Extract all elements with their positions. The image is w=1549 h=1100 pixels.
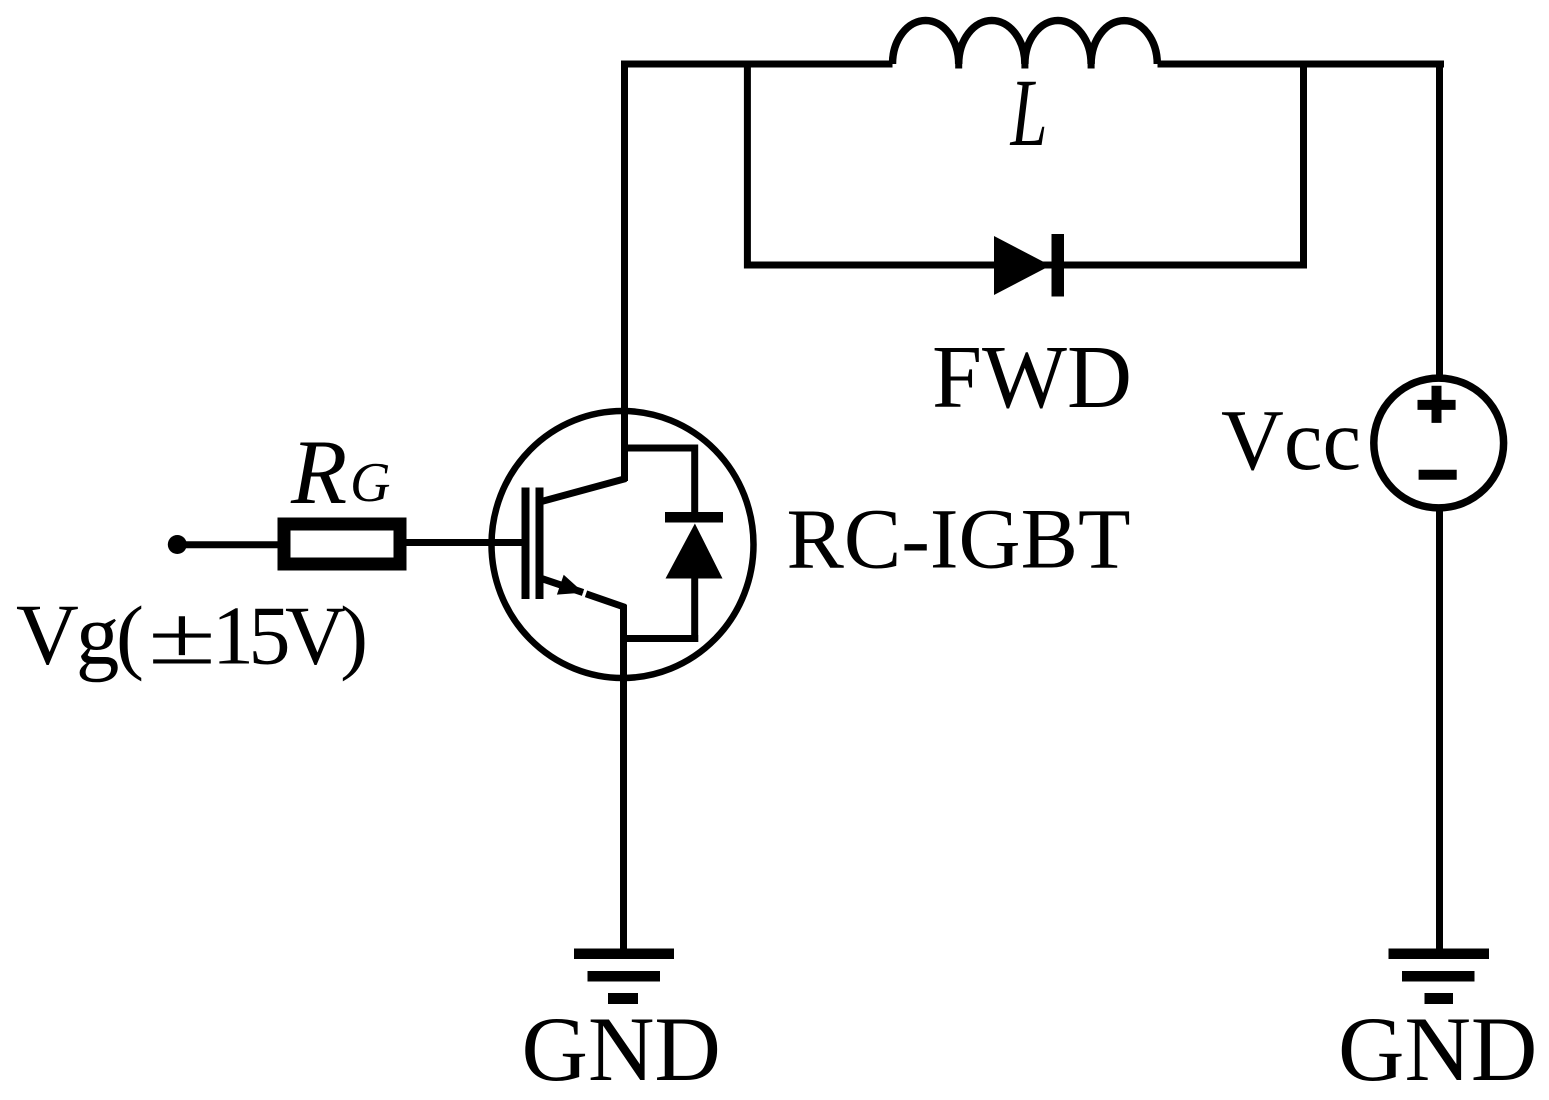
svg-text:±: ± (148, 590, 216, 683)
svg-text:Vcc: Vcc (1221, 391, 1361, 488)
svg-text:G: G (350, 452, 390, 514)
svg-text:RC-IGBT: RC-IGBT (787, 491, 1131, 587)
svg-text:GND: GND (522, 998, 721, 1100)
svg-text:(: ( (116, 590, 144, 683)
svg-text:FWD: FWD (932, 328, 1132, 427)
svg-text:Vg: Vg (16, 586, 118, 683)
svg-text:L: L (1009, 59, 1047, 166)
svg-text:R: R (290, 421, 347, 523)
svg-text:GND: GND (1338, 998, 1537, 1100)
svg-text:15V): 15V) (212, 590, 365, 683)
